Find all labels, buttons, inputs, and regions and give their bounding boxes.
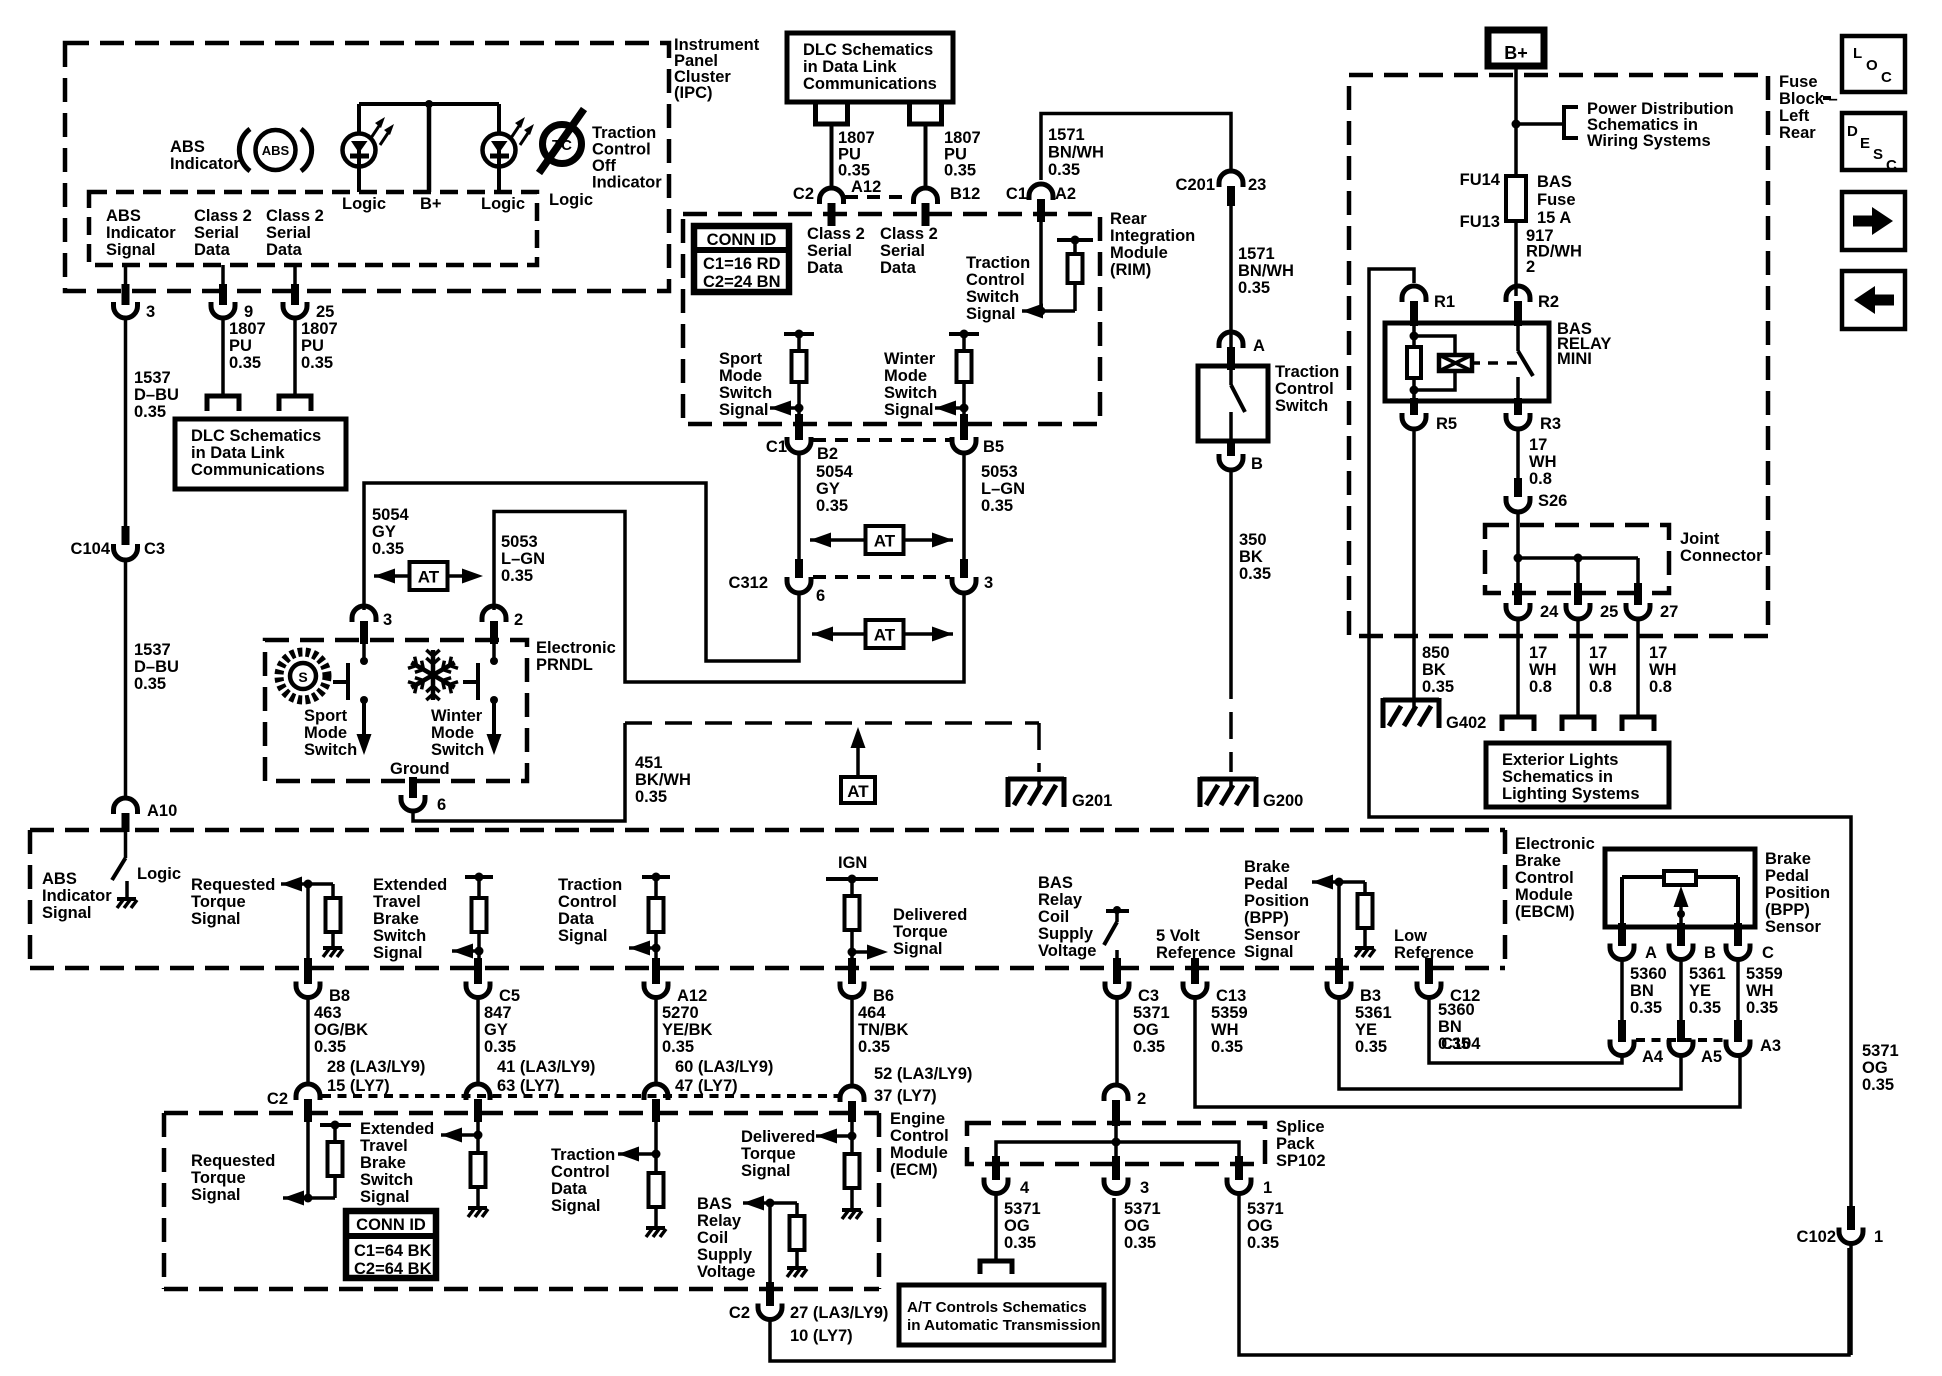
svg-text:17: 17 <box>1589 644 1607 662</box>
label 5360 BN 0.35 C12 <box>1438 1001 1481 1053</box>
svg-text:A5: A5 <box>1701 1048 1722 1066</box>
wire 1807 PU to B12 <box>924 124 928 190</box>
connector C104 C3 <box>71 526 166 560</box>
RIM label <box>1110 210 1195 279</box>
connector ECM C2 pin 27 <box>729 1282 889 1345</box>
relay coil branch <box>1407 326 1455 399</box>
svg-text:Rear: Rear <box>1110 210 1147 228</box>
Low Reference label <box>1394 927 1474 962</box>
svg-text:C: C <box>1886 157 1897 174</box>
svg-text:C1: C1 <box>1006 185 1027 203</box>
svg-text:GY: GY <box>816 480 840 498</box>
connector joint pin 27 <box>1626 583 1678 621</box>
svg-text:0.35: 0.35 <box>1630 999 1662 1017</box>
resistor extended travel <box>472 898 487 960</box>
svg-text:5371: 5371 <box>1862 1042 1899 1060</box>
exterior lights box <box>1486 743 1669 807</box>
svg-text:Sport: Sport <box>719 350 763 368</box>
CONN ID box RIM <box>694 226 789 292</box>
Traction Control Off Indicator label <box>592 124 662 192</box>
connector joint pin 25 <box>1566 583 1618 621</box>
wire 917 RD/WH <box>1514 221 1518 296</box>
Electronic PRNDL label <box>536 639 616 674</box>
svg-text:15 (LY7): 15 (LY7) <box>327 1077 390 1095</box>
svg-text:PRNDL: PRNDL <box>536 656 593 674</box>
connector BPP pin A <box>1610 923 1657 962</box>
BAS relay coil switch <box>1104 906 1129 960</box>
svg-text:(ECM): (ECM) <box>890 1161 938 1179</box>
svg-text:WH: WH <box>1529 661 1557 679</box>
connector C102 pin 1 <box>1797 1206 1884 1246</box>
wire B+ bus <box>359 104 499 192</box>
svg-text:5371: 5371 <box>1133 1004 1170 1022</box>
label 5054 GY 0.35 left <box>372 506 410 558</box>
svg-text:C104: C104 <box>1441 1035 1481 1053</box>
svg-text:A10: A10 <box>147 802 177 820</box>
exterior lights bracket 27 <box>1622 717 1654 731</box>
svg-text:Pedal: Pedal <box>1244 875 1288 893</box>
svg-text:463: 463 <box>314 1004 342 1022</box>
svg-text:9: 9 <box>244 303 253 321</box>
svg-text:Class 2: Class 2 <box>194 207 252 225</box>
arrow requested torque <box>281 877 333 892</box>
svg-text:(EBCM): (EBCM) <box>1515 903 1575 921</box>
svg-text:Communications: Communications <box>803 75 937 93</box>
svg-text:B+: B+ <box>1504 43 1528 63</box>
svg-text:B: B <box>1704 944 1716 962</box>
connector C312 pin 3 <box>952 559 993 593</box>
connector pin 9 of IPC <box>211 265 253 321</box>
svg-text:Brake: Brake <box>1765 850 1811 868</box>
svg-text:ABS: ABS <box>170 138 205 156</box>
resistor ECM A12 <box>649 1173 664 1226</box>
connector SP102 pin 2 <box>1104 1085 1146 1126</box>
svg-text:Signal: Signal <box>360 1188 410 1206</box>
svg-text:4: 4 <box>1020 1179 1030 1197</box>
svg-text:Sensor: Sensor <box>1765 918 1822 936</box>
svg-text:Signal: Signal <box>42 904 92 922</box>
svg-text:WH: WH <box>1746 982 1774 1000</box>
svg-text:Extended: Extended <box>360 1120 434 1138</box>
svg-text:Brake: Brake <box>1244 858 1290 876</box>
label 1807 PU 0.35 col A12 <box>838 129 875 180</box>
AT arrow upper <box>810 526 953 554</box>
svg-text:Supply: Supply <box>697 1246 753 1264</box>
svg-text:Signal: Signal <box>893 940 943 958</box>
Logic label EBCM <box>137 865 181 883</box>
connector PRNDL pin 6 <box>401 777 446 814</box>
wire 5360 BN link <box>1429 997 1622 1063</box>
svg-text:1537: 1537 <box>134 369 171 387</box>
svg-text:0.8: 0.8 <box>1529 678 1552 696</box>
connector A10 <box>114 798 178 832</box>
Logic label 1 <box>342 195 386 213</box>
BAS RELAY MINI label <box>1557 320 1611 368</box>
svg-text:C1: C1 <box>766 438 787 456</box>
BPP Sensor label <box>1765 850 1830 936</box>
Winter mode internal bar <box>949 330 979 352</box>
svg-text:Serial: Serial <box>807 242 852 260</box>
wire 5053 L-GN route <box>494 512 964 683</box>
svg-text:Integration: Integration <box>1110 227 1195 245</box>
svg-text:L–GN: L–GN <box>501 550 545 568</box>
connector EBCM pin C13 <box>1183 958 1246 1005</box>
arrow traction control switch signal <box>1022 304 1075 319</box>
svg-text:5270: 5270 <box>662 1004 699 1022</box>
svg-text:Data: Data <box>807 259 844 277</box>
relay switch <box>1518 326 1533 401</box>
svg-text:47 (LY7): 47 (LY7) <box>675 1077 738 1095</box>
wire 5053 L-GN upper <box>962 453 966 565</box>
svg-text:Electronic: Electronic <box>536 639 616 657</box>
connector C312 pin 6 <box>729 559 826 605</box>
label 5053 L-GN 0.35 left <box>501 533 545 585</box>
svg-text:Communications: Communications <box>191 461 325 479</box>
resistor IGN <box>845 896 860 960</box>
wire ECM C2 down <box>768 1203 772 1290</box>
svg-text:ABS: ABS <box>42 870 77 888</box>
DLC entry bracket right <box>279 396 311 411</box>
svg-text:G402: G402 <box>1446 714 1486 732</box>
svg-text:Sensor: Sensor <box>1244 926 1301 944</box>
relay coil symbol <box>1439 355 1480 371</box>
svg-text:GY: GY <box>372 523 396 541</box>
svg-text:2: 2 <box>1137 1090 1146 1108</box>
svg-text:5361: 5361 <box>1689 965 1726 983</box>
svg-text:A/T Controls Schematics: A/T Controls Schematics <box>907 1299 1087 1316</box>
svg-text:0.35: 0.35 <box>1211 1038 1243 1056</box>
svg-text:847: 847 <box>484 1004 512 1022</box>
connector EBCM pin B3 <box>1327 958 1381 1005</box>
svg-text:C312: C312 <box>729 574 768 592</box>
DLC Schematics box left <box>175 419 346 489</box>
connector C1 pin B2 <box>766 414 838 463</box>
BPP potentiometer <box>1622 871 1738 927</box>
svg-text:WH: WH <box>1589 661 1617 679</box>
Joint Connector label <box>1680 530 1763 565</box>
svg-text:Signal: Signal <box>966 305 1016 323</box>
svg-text:2: 2 <box>514 611 523 629</box>
svg-text:451: 451 <box>635 754 663 772</box>
connector PRNDL pin 3 <box>352 606 392 644</box>
connector ECM C2 pin 37 <box>840 1086 864 1122</box>
connector SP102 pin 3 <box>1104 1156 1149 1197</box>
svg-text:Signal: Signal <box>719 401 769 419</box>
svg-text:Logic: Logic <box>342 195 386 213</box>
svg-text:Traction: Traction <box>551 1146 615 1164</box>
svg-text:R2: R2 <box>1538 293 1559 311</box>
svg-text:C102: C102 <box>1797 1228 1836 1246</box>
svg-text:Logic: Logic <box>137 865 181 883</box>
arrow winter mode switch signal <box>935 401 969 416</box>
wire 1807 PU to A12 <box>830 124 834 190</box>
wire 1807 PU from pin 25 <box>293 318 297 396</box>
svg-text:17: 17 <box>1529 644 1547 662</box>
svg-text:OG: OG <box>1862 1059 1888 1077</box>
svg-text:Engine: Engine <box>890 1110 945 1128</box>
svg-text:Signal: Signal <box>741 1162 791 1180</box>
connector EBCM pin C5 <box>466 958 520 1005</box>
svg-text:0.35: 0.35 <box>1048 161 1080 179</box>
label 1807 PU 0.35 col 25 <box>301 320 338 372</box>
Winter Mode Switch Signal label <box>884 350 937 419</box>
ABS indicator telltale <box>239 129 311 171</box>
connector dashed link C1-B5 <box>813 438 950 442</box>
svg-text:Indicator: Indicator <box>42 887 112 905</box>
resistor BPP signal <box>1358 882 1373 946</box>
svg-text:Data: Data <box>880 259 917 277</box>
prev page arrow box <box>1842 271 1905 329</box>
connector EBCM pin C3 <box>1105 958 1159 1005</box>
svg-text:A3: A3 <box>1760 1037 1781 1055</box>
label 5371 OG 0.35 pin4 <box>1004 1200 1041 1252</box>
sport mode switch <box>333 644 372 755</box>
svg-text:0.35: 0.35 <box>1133 1038 1165 1056</box>
svg-text:E: E <box>1860 135 1870 152</box>
svg-text:0.8: 0.8 <box>1529 470 1552 488</box>
wire B+ to fuse <box>1514 66 1518 176</box>
svg-text:Switch: Switch <box>719 384 772 402</box>
Sport Mode Switch label <box>304 707 357 759</box>
svg-text:AT: AT <box>874 532 896 551</box>
label 5054 GY 0.35 col B2 <box>816 463 854 515</box>
ground logic <box>117 899 137 908</box>
svg-text:5053: 5053 <box>501 533 538 551</box>
connector ECM C2 pin 63 <box>466 1084 490 1122</box>
CONN ID box ECM <box>346 1211 436 1278</box>
fuse BAS FU14/FU13 <box>1460 171 1576 231</box>
svg-text:5360: 5360 <box>1438 1001 1475 1019</box>
LOC box <box>1842 36 1905 92</box>
svg-text:(RIM): (RIM) <box>1110 261 1151 279</box>
svg-text:Indicator: Indicator <box>592 174 662 192</box>
rear integration module (RIM) dashed box <box>683 214 1100 424</box>
arrow traction data <box>629 941 661 956</box>
label 5371 OG 0.35 pin3 <box>1124 1200 1161 1252</box>
connector C2 dashed link <box>845 195 910 199</box>
svg-text:Travel: Travel <box>373 893 421 911</box>
wire 17 WH pin 24 <box>1516 620 1520 717</box>
label 350 BK 0.35 <box>1239 531 1271 583</box>
svg-text:(BPP): (BPP) <box>1244 909 1289 927</box>
Extended Travel Brake Switch Signal label ECM <box>360 1120 434 1206</box>
DLC entry bracket left <box>207 396 239 411</box>
svg-text:C2=64 BK: C2=64 BK <box>354 1260 432 1278</box>
connector C1 pin A2 <box>1006 184 1076 222</box>
connector BPP pin C <box>1726 923 1774 962</box>
traction data bar <box>642 873 670 899</box>
Sport Mode Switch Signal label <box>719 350 772 419</box>
relay mech link dashes <box>1488 361 1522 365</box>
winter snowflake icon <box>408 650 458 700</box>
svg-text:in Automatic Transmission: in Automatic Transmission <box>907 1317 1101 1334</box>
svg-text:Reference: Reference <box>1394 944 1474 962</box>
ground G402 <box>1383 698 1486 732</box>
ABS Indicator Signal label <box>106 207 176 259</box>
svg-text:17: 17 <box>1529 436 1547 454</box>
arrow traction data ECM <box>618 1147 661 1162</box>
svg-text:Module: Module <box>1110 244 1168 262</box>
fuse block dashed box <box>1349 75 1768 636</box>
label 917 RD/WH 2 <box>1526 227 1582 276</box>
svg-text:C2: C2 <box>729 1304 750 1322</box>
svg-text:Coil: Coil <box>697 1229 728 1247</box>
svg-text:1537: 1537 <box>134 641 171 659</box>
svg-text:Pedal: Pedal <box>1765 867 1809 885</box>
svg-text:Control: Control <box>1275 380 1334 398</box>
svg-text:Winter: Winter <box>431 707 483 725</box>
dashed wire to grounds <box>625 723 1039 772</box>
Logic label 2 <box>481 195 525 213</box>
connector EBCM pin B6 <box>840 958 894 1005</box>
AT controls bracket <box>980 1261 1012 1274</box>
wire C5 ECM <box>476 1122 480 1153</box>
svg-text:AT: AT <box>847 782 869 801</box>
DLC Schematics box top <box>787 33 953 102</box>
svg-text:0.8: 0.8 <box>1589 678 1612 696</box>
connector EBCM pin C12 <box>1417 958 1480 1005</box>
Class 2 Serial Data label RIM 1 <box>807 225 865 277</box>
resistor traction data <box>649 898 664 960</box>
connector ECM C2 pin 15 <box>267 1084 320 1122</box>
svg-text:Voltage: Voltage <box>1038 942 1096 960</box>
connector pin B5 <box>952 414 1004 456</box>
wire B8 internal <box>306 884 310 960</box>
ABS Indicator Signal label EBCM <box>42 870 112 922</box>
svg-text:AT: AT <box>874 626 896 645</box>
svg-text:5360: 5360 <box>1630 965 1667 983</box>
wire SP102 pin4 to AT box <box>994 1194 998 1261</box>
Class 2 Serial Data label RIM 2 <box>880 225 938 277</box>
svg-text:Traction: Traction <box>592 124 656 142</box>
svg-text:B+: B+ <box>420 195 442 213</box>
svg-text:G200: G200 <box>1263 792 1303 810</box>
svg-text:Switch: Switch <box>1275 397 1328 415</box>
svg-text:BAS: BAS <box>1038 874 1073 892</box>
svg-text:SP102: SP102 <box>1276 1152 1326 1170</box>
BAS Relay Coil Supply Voltage label ECM <box>697 1195 755 1281</box>
connector SP102 pin 1 <box>1227 1156 1272 1197</box>
label 5360 BN 0.35 A <box>1630 965 1667 1017</box>
svg-text:(BPP): (BPP) <box>1765 901 1810 919</box>
svg-text:0.35: 0.35 <box>484 1038 516 1056</box>
label 5371 OG 0.35 right <box>1862 1042 1899 1094</box>
wire SP102 pin1 to C102 <box>1239 1194 1849 1355</box>
Splice Pack SP102 label <box>1276 1118 1326 1170</box>
svg-text:Splice: Splice <box>1276 1118 1325 1136</box>
connector relay pin R5 <box>1402 398 1457 433</box>
svg-text:Switch: Switch <box>360 1171 413 1189</box>
svg-text:Data: Data <box>558 910 595 928</box>
joint connector dashed box <box>1485 525 1669 593</box>
label 17 WH 0.8 R3 <box>1529 436 1557 488</box>
svg-text:0.35: 0.35 <box>134 403 166 421</box>
BPP dashed link <box>1636 1038 1727 1042</box>
svg-text:Data: Data <box>194 241 231 259</box>
svg-text:GY: GY <box>484 1021 508 1039</box>
svg-text:Switch: Switch <box>304 741 357 759</box>
resistor ECM B8 <box>328 1142 343 1198</box>
svg-text:Control: Control <box>592 141 651 159</box>
svg-text:5371: 5371 <box>1247 1200 1284 1218</box>
svg-text:C1=64 BK: C1=64 BK <box>354 1242 432 1260</box>
extended bar ECM <box>320 1121 351 1143</box>
ground ECM B6 <box>842 1210 862 1219</box>
svg-text:YE: YE <box>1355 1021 1377 1039</box>
electronic brake control module (EBCM) dashed box <box>30 830 1505 968</box>
svg-text:Brake: Brake <box>360 1154 406 1172</box>
DESC box <box>1842 113 1905 174</box>
svg-text:Electronic: Electronic <box>1515 835 1595 853</box>
Traction Control Switch label <box>1275 363 1339 415</box>
svg-text:27 (LA3/LY9): 27 (LA3/LY9) <box>790 1304 888 1322</box>
connector TCS pin B <box>1219 441 1263 473</box>
brake pedal position sensor box <box>1605 849 1755 927</box>
svg-text:0.35: 0.35 <box>838 162 870 180</box>
svg-text:in Data Link: in Data Link <box>803 58 897 76</box>
wire 5361 YE link <box>1339 997 1681 1089</box>
Winter Mode Switch label <box>431 707 484 759</box>
connector BPP pin A4 <box>1610 1020 1664 1066</box>
svg-text:0.35: 0.35 <box>372 540 404 558</box>
wire B3 internal <box>1337 882 1341 960</box>
connector TCS pin A <box>1219 332 1265 370</box>
svg-text:Switch: Switch <box>884 384 937 402</box>
resistor sport mode <box>792 351 807 420</box>
svg-text:Torque: Torque <box>191 893 246 911</box>
label 5270 YE/BK 0.35 <box>662 1004 713 1056</box>
label 1537 D-BU 0.35 lower <box>134 641 179 693</box>
svg-text:C201: C201 <box>1176 176 1215 194</box>
Traction Control Switch Signal label <box>966 254 1030 323</box>
svg-text:Connector: Connector <box>1680 547 1763 565</box>
svg-text:Serial: Serial <box>194 224 239 242</box>
svg-text:Position: Position <box>1244 892 1309 910</box>
connector EBCM pin A12 <box>644 958 707 1005</box>
svg-text:Relay: Relay <box>697 1212 742 1230</box>
BAS relay mini box <box>1385 323 1549 401</box>
svg-text:1571: 1571 <box>1238 245 1275 263</box>
connector BPP pin B <box>1669 923 1716 962</box>
svg-text:Brake: Brake <box>1515 852 1561 870</box>
svg-text:1: 1 <box>1874 1228 1883 1246</box>
label 17 WH 0.8 pin 27 <box>1649 644 1677 696</box>
svg-text:Logic: Logic <box>549 191 593 209</box>
Requested Torque Signal label <box>191 876 275 928</box>
Brake Pedal Position BPP Sensor Signal label <box>1244 858 1309 961</box>
svg-text:MINI: MINI <box>1557 350 1592 368</box>
svg-text:Mode: Mode <box>719 367 762 385</box>
ABS Indicator label <box>170 138 240 173</box>
AT arrow left <box>374 562 483 590</box>
wire 350 BK <box>1229 470 1233 772</box>
label 41/63 pins <box>497 1058 595 1095</box>
connector relay pin R2 <box>1506 286 1559 326</box>
svg-text:Control: Control <box>966 271 1025 289</box>
wire 850 BK <box>1412 430 1416 700</box>
TC off icon <box>539 109 584 173</box>
svg-text:S26: S26 <box>1538 492 1567 510</box>
svg-text:C: C <box>1762 944 1774 962</box>
Class 2 Serial Data label 2 <box>266 207 324 259</box>
svg-text:Torque: Torque <box>893 923 948 941</box>
svg-text:C3: C3 <box>1138 987 1159 1005</box>
svg-text:YE: YE <box>1689 982 1711 1000</box>
svg-text:5371: 5371 <box>1124 1200 1161 1218</box>
Sport mode internal bar <box>784 330 814 352</box>
svg-text:D–BU: D–BU <box>134 658 179 676</box>
svg-text:10 (LY7): 10 (LY7) <box>790 1327 853 1345</box>
